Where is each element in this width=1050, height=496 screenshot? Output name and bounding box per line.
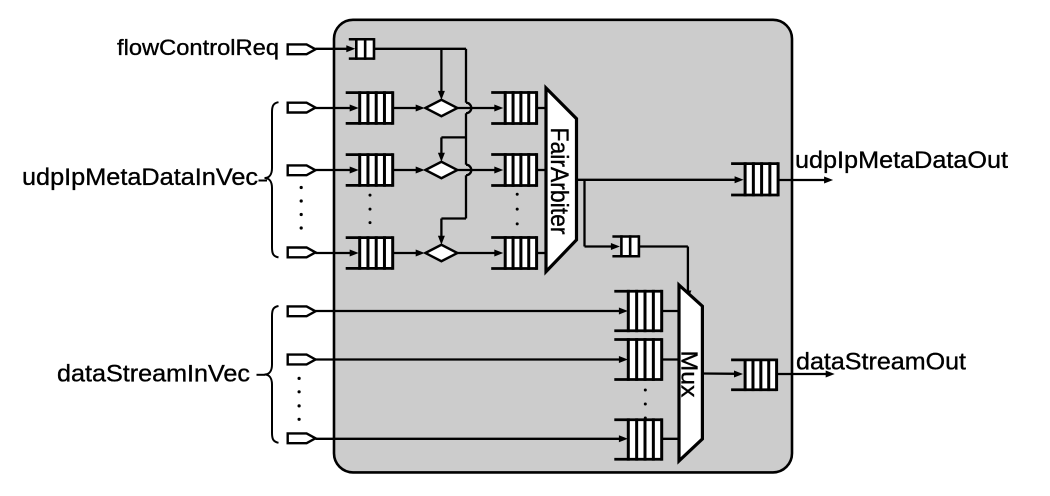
svg-text:Mux: Mux bbox=[677, 351, 703, 398]
svg-text:udpIpMetaDataInVec: udpIpMetaDataInVec bbox=[22, 164, 258, 191]
svg-text:flowControlReq: flowControlReq bbox=[117, 35, 279, 60]
svg-text:FairArbiter: FairArbiter bbox=[545, 128, 573, 235]
svg-text:dataStreamInVec: dataStreamInVec bbox=[57, 361, 250, 388]
svg-text:udpIpMetaDataOut: udpIpMetaDataOut bbox=[795, 147, 1008, 174]
svg-text:dataStreamOut: dataStreamOut bbox=[796, 349, 966, 376]
